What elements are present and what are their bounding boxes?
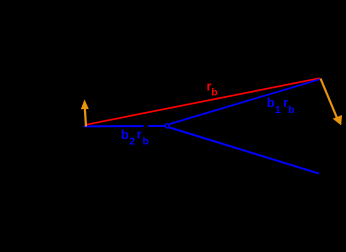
svg-text:b: b bbox=[288, 104, 294, 116]
svg-text:b: b bbox=[143, 136, 149, 148]
node junction circle bbox=[165, 124, 169, 128]
label b_2 r_b (blue) bbox=[121, 126, 149, 147]
svg-text:b: b bbox=[121, 127, 129, 142]
red line r_b from left point to top-right point bbox=[86, 78, 320, 125]
blue line b_1 r_b from junction to top-right point bbox=[170, 79, 320, 124]
svg-text:b: b bbox=[267, 95, 275, 110]
blue lower line from junction to bottom right bbox=[170, 128, 319, 174]
svg-text:1: 1 bbox=[275, 104, 281, 116]
label r_b (red) bbox=[207, 78, 218, 98]
left orange arrow (vertical, pointing up) bbox=[81, 99, 89, 126]
blue horizontal line b_2 r_b segment 2 bbox=[148, 125, 165, 127]
svg-text:b: b bbox=[211, 87, 217, 99]
right orange arrow (pointing down-right) bbox=[321, 79, 343, 126]
blue horizontal line b_2 r_b segment 1 bbox=[84, 125, 144, 127]
svg-text:2: 2 bbox=[129, 135, 135, 147]
svg-text:r: r bbox=[137, 126, 142, 141]
label b_1 r_b (blue) bbox=[267, 95, 295, 116]
